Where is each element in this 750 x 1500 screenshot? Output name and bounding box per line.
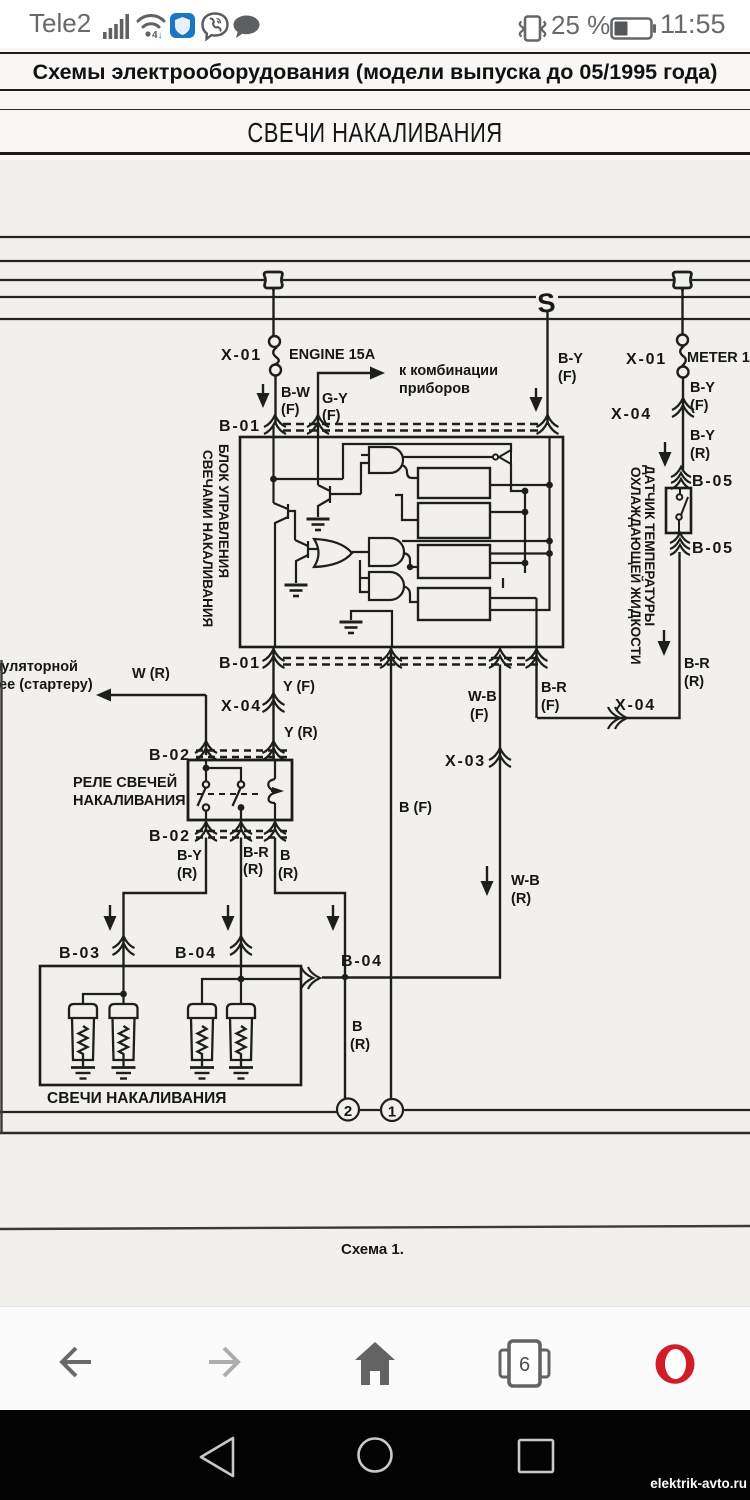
svg-text:(F): (F) [558, 369, 577, 385]
connector chevron B-02/B-R [230, 822, 252, 841]
svg-text:B-05: B-05 [692, 540, 734, 557]
junction of B wire at B-04 line [344, 975, 346, 1099]
transistor Q3 [295, 540, 317, 583]
android nav bar [0, 1410, 750, 1500]
svg-text:(F): (F) [281, 402, 300, 418]
body line 1 [0, 1110, 750, 1112]
svg-text:X-04: X-04 [615, 697, 656, 714]
svg-text:B-04: B-04 [341, 953, 383, 970]
junction dot plug pair 2 [238, 976, 245, 983]
svg-text:B-R: B-R [541, 680, 567, 696]
nav back triangle [197, 1435, 237, 1479]
relay K1: РЕЛЕ СВЕЧЕЙ НАКАЛИВАНИЯ [188, 760, 292, 820]
browser toolbar [0, 1306, 750, 1410]
flow arrow B-R [227, 905, 229, 927]
connector chevron B-01/W-B [489, 649, 511, 668]
svg-text:(F): (F) [690, 398, 709, 414]
connector chevron B-01/B-R [526, 649, 548, 668]
svg-text:(R): (R) [690, 446, 710, 462]
back arrow [59, 1345, 93, 1379]
signal bars icon [103, 12, 133, 40]
wire B-04 out of box [241, 978, 301, 980]
flow arrow B-W [262, 384, 264, 404]
svg-text:(F): (F) [470, 707, 489, 723]
connector chevron B-04 right (on horizontal wire) [301, 967, 320, 989]
flow arrow B [332, 905, 334, 927]
relay internal wiring [197, 760, 280, 832]
svg-text:ОХЛАЖДАЮЩЕЙ ЖИДКОСТИ: ОХЛАЖДАЮЩЕЙ ЖИДКОСТИ [628, 467, 643, 665]
glow plug 3 [188, 1004, 216, 1079]
svg-text:B-01: B-01 [219, 418, 261, 435]
svg-text:Y (R): Y (R) [284, 725, 318, 741]
svg-text:B: B [280, 848, 290, 864]
U1 wire B-W vertical through box [272, 425, 274, 503]
svg-text:(R): (R) [684, 674, 704, 690]
svg-text:METER 1: METER 1 [687, 350, 750, 366]
home icon [354, 1341, 396, 1386]
U1 rail node dots [522, 488, 529, 495]
page header band [0, 48, 750, 160]
svg-text:(F): (F) [541, 698, 560, 714]
flow arrow B-Y (F) [535, 388, 537, 408]
driver block R2 [418, 503, 490, 538]
svg-text:B-W: B-W [281, 385, 310, 401]
connector chevron X-04 right [672, 398, 694, 417]
gate G3 (AND mid) [369, 538, 404, 566]
svg-text:X-01: X-01 [626, 351, 667, 368]
svg-text:(R): (R) [350, 1037, 370, 1053]
connector chevron X-03 [489, 748, 511, 767]
wire B to B-04 connector [275, 838, 345, 975]
junction dot plug pair 1 [120, 991, 127, 998]
U1 wire G-Y vertical [317, 437, 319, 485]
wire to glow plugs 3-4 [202, 966, 241, 1003]
wire B-R (F) from box bottom [535, 647, 537, 718]
svg-text:батарее (стартеру): батарее (стартеру) [0, 677, 93, 693]
gate G4 (AND low) [369, 572, 404, 600]
connector chevron X-04 left [263, 693, 285, 712]
bus wire 1 [0, 236, 750, 238]
svg-text:СВЕЧИ НАКАЛИВАНИЯ: СВЕЧИ НАКАЛИВАНИЯ [47, 1090, 226, 1107]
connector chevron B-05 bottom [670, 533, 690, 555]
connector chevron B-02/Y [263, 741, 285, 760]
ground Q3 [285, 585, 308, 596]
connector chevron B-04 [230, 936, 252, 955]
wire F2 to X-04 [682, 378, 684, 471]
page bottom rule [0, 1226, 750, 1229]
svg-text:B-Y: B-Y [558, 351, 583, 367]
viber icon [201, 12, 229, 41]
connector chevron B-01/G-Y [307, 415, 329, 434]
svg-text:(F): (F) [322, 408, 341, 424]
svg-text:B-R: B-R [684, 656, 710, 672]
svg-text:X-03: X-03 [445, 753, 486, 770]
wifi icon [136, 10, 166, 42]
svg-text:B: B [352, 1019, 362, 1035]
wire B-R to glow plug box [240, 838, 242, 967]
ground center [340, 622, 363, 633]
connector tap T2 on bus 3 [673, 271, 692, 291]
wire B (F) from box to ground point 1 [390, 647, 392, 1099]
ground terminal circle 2 [337, 1099, 359, 1121]
bus wire 2 [0, 260, 750, 262]
wire Y(F)/Y(R) from box to relay [272, 647, 274, 759]
relay junction dot [203, 765, 210, 772]
splice S1 on bus 4 [536, 288, 558, 319]
forward arrow [207, 1345, 241, 1379]
svg-text:B-Y: B-Y [177, 848, 202, 864]
U1 wire R3 lower to rail [490, 562, 525, 564]
svg-text:(R): (R) [278, 866, 298, 882]
svg-text:(R): (R) [511, 891, 531, 907]
svg-text:ДАТЧИК ТЕМПЕРАТУРЫ: ДАТЧИК ТЕМПЕРАТУРЫ [642, 465, 657, 626]
flow arrow B-Y [109, 905, 111, 927]
U1 rail gap link [502, 578, 504, 588]
gate G2 (OR mid) [314, 539, 352, 567]
ground Q1 [307, 519, 330, 530]
ground terminal circle 1 [381, 1099, 403, 1121]
wire sensor down to X-04 horizontal [537, 552, 680, 718]
junction dot G3/R3 [407, 564, 413, 570]
status bar [0, 0, 750, 48]
U1 wire B-Y vertical right [490, 437, 550, 610]
relay contact dot [238, 804, 245, 811]
connector chevron B-01/Y [263, 649, 285, 668]
svg-text:ENGINE 15A: ENGINE 15A [289, 347, 376, 363]
U1 wire base feed horizontal [274, 444, 512, 479]
relay coil arrowhead [272, 787, 284, 795]
U1 right node dots on B-Y wire [546, 482, 553, 489]
gate G1 (AND top) [369, 447, 403, 473]
bus wire 5 [0, 318, 750, 320]
svg-text:B-01: B-01 [219, 655, 261, 672]
wire fuse F1 to bus B-01 [274, 376, 276, 426]
G4 input wires [360, 560, 369, 592]
svg-text:B-04: B-04 [175, 945, 217, 962]
transistor Q1 [318, 485, 361, 517]
page left edge shadow [0, 660, 2, 1133]
svg-text:приборов: приборов [399, 381, 470, 397]
svg-text:X-04: X-04 [611, 406, 652, 423]
svg-text:СВЕЧАМИ НАКАЛИВАНИЯ: СВЕЧАМИ НАКАЛИВАНИЯ [200, 450, 215, 627]
connector chevron B-01/B-Y [537, 415, 559, 434]
connector chevron B-02/W [195, 741, 217, 760]
wire from T2 to fuse F2 [681, 291, 683, 334]
svg-text:W-B: W-B [468, 689, 497, 705]
wire from S1 down (B-Y F) [546, 310, 548, 425]
wire G3 to R3 [403, 553, 418, 567]
U1 wire R4 right to box edge [490, 597, 537, 599]
svg-text:B-Y: B-Y [690, 380, 715, 396]
wire B-Y to glow plug box [124, 838, 207, 967]
U1 inner right rail [524, 491, 526, 573]
svg-text:БЛОК УПРАВЛЕНИЯ: БЛОК УПРАВЛЕНИЯ [216, 444, 231, 578]
U1 node dot B-W feed [270, 476, 277, 483]
wire G1 to R1 [402, 465, 418, 478]
wire B-04 to W-B vertical [322, 665, 500, 978]
bus wire 3 [0, 279, 750, 281]
svg-text:B-R: B-R [243, 845, 269, 861]
svg-text:(R): (R) [177, 866, 197, 882]
fuse F2 METER [677, 335, 689, 378]
junction dot B wire / B-04 wire [342, 974, 348, 980]
U1 wire R2 right to rail [490, 511, 525, 513]
U1 wire R3 right to node [490, 552, 550, 554]
wire to R2 [395, 495, 418, 520]
svg-text:1: 1 [388, 1104, 396, 1121]
connector chevron B-01/B [380, 649, 402, 668]
wire and arrow to instrument cluster [318, 373, 381, 437]
svg-text:W (R): W (R) [132, 666, 170, 682]
glow plug box [40, 966, 301, 1085]
U1 wire B-R from inner to box bottom [535, 598, 537, 647]
connector bus B-01 bottom (dashed pair) [283, 658, 540, 665]
control unit U1: БЛОК УПРАВЛЕНИЯ СВЕЧАМИ НАКАЛИВАНИЯ [240, 437, 563, 647]
connector chevron X-04 on horizontal wire [608, 707, 627, 729]
glow plug 1 [69, 1004, 97, 1079]
connector chevron B-03 [113, 936, 135, 955]
schematic scan area [0, 160, 750, 1306]
connector chevron B-02/B-Y [195, 822, 217, 841]
svg-text:РЕЛЕ СВЕЧЕЙ: РЕЛЕ СВЕЧЕЙ [73, 773, 177, 791]
connector bus B-01 top (dashed pair) [283, 424, 540, 431]
temp sensor switch box [666, 488, 691, 533]
svg-text:X-01: X-01 [221, 347, 262, 364]
glow plug 4 [227, 1004, 255, 1079]
svg-text:B-02: B-02 [149, 828, 191, 845]
svg-text:B-Y: B-Y [690, 428, 715, 444]
svg-text:Схема 1.: Схема 1. [341, 1241, 404, 1258]
flow arrow B-Y (R) [664, 442, 666, 463]
svg-text:(R): (R) [243, 862, 263, 878]
battery icon [610, 17, 656, 40]
wire G3 top to right node [402, 540, 550, 542]
bus wire 4 [0, 296, 750, 298]
opera logo [654, 1337, 696, 1385]
driver block R3 [418, 545, 490, 578]
connector chevron B-01/B-W [264, 415, 286, 434]
svg-text:2: 2 [344, 1103, 352, 1120]
shield app icon [170, 13, 195, 38]
nav home circle [356, 1436, 394, 1474]
svg-text:6: 6 [519, 1354, 530, 1376]
G1 input wires [361, 463, 369, 494]
wire from T1 to fuse F1 [272, 291, 274, 336]
wire W (R) to battery with arrow [100, 694, 206, 696]
connector chevron B-02/B [264, 822, 286, 841]
fuse F1 ENGINE 15A [269, 336, 281, 376]
transistor Q2 [274, 503, 296, 647]
svg-text:Y (F): Y (F) [283, 679, 315, 695]
driver block R4 [418, 588, 490, 620]
flow arrow B-R (R) [663, 630, 665, 652]
inverter U2 [493, 450, 511, 464]
svg-text:4↓: 4↓ [152, 30, 163, 41]
svg-text:к комбинации: к комбинации [399, 363, 498, 379]
tab switcher icon [497, 1339, 552, 1388]
connector tap T1 on bus 3 [264, 271, 283, 291]
glow plug 2 [110, 1004, 138, 1079]
svg-text:G-Y: G-Y [322, 391, 348, 407]
svg-text:W-B: W-B [511, 873, 540, 889]
driver block R1 [418, 468, 490, 498]
svg-text:X-04: X-04 [221, 698, 262, 715]
svg-text:B-05: B-05 [692, 473, 734, 490]
G2-G3 link [352, 551, 369, 553]
chat bubble icon [233, 15, 260, 39]
U1 center ground wire [351, 611, 392, 647]
flow arrow W-B (R) [486, 866, 488, 892]
nav square [517, 1438, 555, 1474]
wire G1 output to inverter [403, 456, 493, 458]
connector bus B-02 bottom [196, 831, 290, 838]
U1 wire R1 right to B-Y node [490, 484, 550, 486]
svg-text:B (F): B (F) [399, 800, 432, 816]
connector bus B-02 top [196, 751, 290, 758]
wire to glow plugs 1-2 [83, 966, 124, 1003]
wire G4 to R4 [403, 586, 418, 602]
svg-text:к аккумуляторной: к аккумуляторной [0, 659, 78, 675]
svg-text:B-02: B-02 [149, 747, 191, 764]
body line 2 [0, 1132, 750, 1135]
connector chevron B-05 top [671, 467, 691, 489]
vibrate icon [517, 15, 548, 42]
svg-text:НАКАЛИВАНИЯ: НАКАЛИВАНИЯ [73, 793, 186, 809]
switch contacts inside sensor [676, 488, 688, 533]
U1 wire inverter to rail [511, 463, 525, 491]
svg-text:B-03: B-03 [59, 945, 101, 962]
